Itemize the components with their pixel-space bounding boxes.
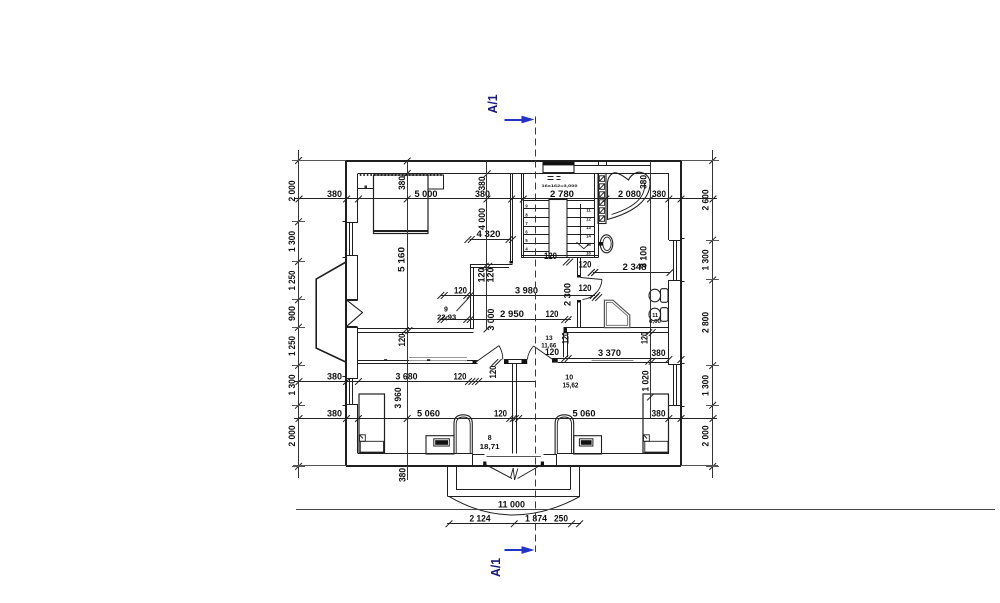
svg-text:120: 120	[640, 332, 651, 344]
desk room10	[574, 436, 602, 454]
nightstand room9	[428, 175, 444, 189]
splayed window reveals	[346, 301, 362, 327]
entrance door jamb pilasters	[472, 454, 485, 456]
stair treads	[524, 200, 549, 202]
extension line bottom left	[293, 465, 346, 467]
svg-text:2 950: 2 950	[500, 309, 524, 320]
svg-text:13: 13	[586, 225, 591, 230]
wall H1 room9 bottom	[357, 328, 473, 330]
entrance door jamb caps	[483, 462, 486, 466]
window left lower glazing	[349, 378, 351, 404]
shower tray	[604, 300, 629, 327]
svg-text:22,93: 22,93	[437, 314, 456, 321]
svg-text:1 300: 1 300	[701, 375, 711, 396]
svg-text:120: 120	[488, 366, 499, 379]
svg-text:380: 380	[397, 176, 408, 190]
svg-text:11: 11	[586, 208, 591, 213]
svg-text:5 060: 5 060	[417, 409, 440, 420]
wall H3c corridor bottom right	[552, 358, 669, 360]
svg-text:1 250: 1 250	[287, 336, 297, 356]
window left upper glazing	[349, 223, 351, 256]
dim line 5060	[294, 418, 717, 420]
dim ticks y418	[296, 415, 303, 422]
svg-text:1 250: 1 250	[287, 271, 297, 291]
interior dim line x650	[650, 161, 652, 419]
bathtub corner heart-shaped	[607, 172, 650, 219]
door bathroom leaf and swing	[581, 278, 603, 280]
bed room9	[374, 175, 429, 234]
svg-text:2 124: 2 124	[470, 514, 491, 524]
window right lower sills	[669, 364, 681, 366]
svg-text:2 300: 2 300	[563, 283, 574, 306]
svg-text:120: 120	[494, 409, 507, 420]
flue ledge line top wall	[574, 165, 651, 167]
dim line 3680	[294, 381, 536, 383]
extension line top right	[681, 160, 718, 162]
svg-text:120: 120	[579, 283, 592, 293]
svg-text:3 980: 3 980	[515, 286, 538, 297]
dim line 3980	[441, 295, 595, 297]
dim ticks y199	[296, 196, 303, 203]
stove room8	[454, 415, 472, 454]
svg-text:16: 16	[586, 251, 591, 256]
wall V3 corridor right	[563, 333, 565, 358]
bathroom left wall upper	[577, 258, 579, 278]
svg-text:3 680: 3 680	[396, 372, 418, 383]
wall H3a corridor bottom left	[358, 360, 478, 362]
svg-text:2 000: 2 000	[287, 426, 297, 447]
right dimension chain line	[712, 150, 714, 478]
svg-text:5 160: 5 160	[397, 247, 408, 272]
section arrow bottom	[505, 549, 530, 551]
interior dim line x486	[486, 161, 488, 330]
window right lower glazing	[673, 365, 675, 405]
dim line y199	[294, 198, 717, 200]
vent block with flue squares	[598, 174, 606, 224]
svg-text:120: 120	[544, 251, 557, 261]
porch step arc	[449, 496, 580, 515]
svg-text:250: 250	[554, 514, 568, 524]
svg-text:380: 380	[398, 468, 409, 482]
wall W1 vertical x509	[510, 174, 512, 264]
svg-text:14: 14	[586, 234, 591, 239]
interior dim line x407	[407, 161, 409, 480]
svg-text:6,00: 6,00	[649, 319, 661, 325]
svg-text:380: 380	[652, 348, 666, 359]
svg-text:120: 120	[454, 286, 467, 297]
svg-text:120: 120	[486, 268, 497, 283]
svg-text:380: 380	[327, 372, 342, 383]
washbasin	[600, 235, 613, 253]
dim line 2348	[593, 272, 670, 274]
wall jog y264	[470, 264, 513, 266]
dim line 3370 ticks	[561, 355, 568, 362]
svg-text:16x162=3,000: 16x162=3,000	[542, 183, 579, 188]
wall right exterior outer face	[680, 161, 682, 466]
door room8 leaf and swing	[477, 346, 499, 362]
svg-text:5 060: 5 060	[573, 409, 596, 420]
svg-text:10: 10	[565, 374, 573, 381]
svg-text:8: 8	[488, 435, 492, 442]
svg-text:2 600: 2 600	[701, 190, 711, 211]
window left upper sills	[346, 222, 358, 224]
svg-text:4 000: 4 000	[477, 208, 488, 230]
svg-text:380: 380	[652, 409, 666, 420]
entrance door lintel line	[487, 456, 541, 458]
svg-text:12: 12	[586, 216, 591, 221]
svg-text:9: 9	[444, 307, 448, 314]
stair central well	[549, 200, 567, 258]
wall left exterior outer face	[345, 161, 347, 466]
svg-text:120: 120	[546, 309, 559, 320]
entrance double door leaves	[486, 465, 512, 479]
svg-text:2 080: 2 080	[618, 189, 641, 200]
shelf room9 left	[358, 188, 374, 190]
svg-text:1 020: 1 020	[641, 371, 652, 392]
bathroom left wall lower	[577, 300, 579, 328]
svg-text:120: 120	[454, 372, 467, 383]
ground line y510	[296, 509, 995, 511]
wall V4 between rooms 8 and 10	[512, 364, 514, 454]
wall H2 bath bottom	[564, 327, 670, 329]
window right upper glazing	[673, 240, 675, 280]
bidet	[661, 308, 669, 322]
wall bottom exterior outer face	[346, 465, 681, 467]
bay terrace outline	[316, 262, 346, 362]
wall top exterior inner face	[358, 173, 669, 175]
dim line bottom porch	[447, 523, 581, 525]
section arrow top	[505, 119, 530, 121]
desk room8	[426, 436, 454, 454]
extension line top left	[293, 160, 346, 162]
svg-text:3 370: 3 370	[598, 348, 621, 359]
svg-text:13: 13	[545, 335, 553, 342]
svg-text:А/1: А/1	[485, 95, 500, 114]
stair direction arrow	[576, 242, 590, 249]
svg-text:2 000: 2 000	[287, 181, 297, 202]
svg-text:120: 120	[579, 260, 592, 270]
svg-text:2 000: 2 000	[701, 426, 711, 447]
porch left wall	[447, 466, 449, 497]
svg-text:380: 380	[327, 409, 342, 420]
window right upper sills	[669, 240, 681, 242]
svg-text:380: 380	[327, 189, 342, 200]
svg-text:380: 380	[639, 175, 650, 189]
stair enclosure left wall	[521, 174, 523, 258]
bed room10	[643, 394, 669, 453]
toilet	[661, 289, 669, 303]
wardrobe dotted strip room9	[360, 174, 442, 176]
svg-text:5 000: 5 000	[415, 189, 438, 200]
window left lower sills	[346, 378, 358, 380]
splayed window opening jamb caps	[346, 299, 357, 301]
svg-text:380: 380	[652, 189, 666, 200]
extension line bottom right	[681, 465, 718, 467]
porch bottom wall	[448, 496, 580, 498]
dim line 4320	[470, 239, 511, 241]
section dashed line	[535, 117, 537, 553]
svg-text:380: 380	[477, 177, 488, 191]
stove room10	[555, 415, 574, 454]
left dimension chain line	[298, 150, 300, 478]
svg-text:2 800: 2 800	[701, 312, 711, 333]
bed room8	[359, 394, 385, 453]
svg-text:3 100: 3 100	[639, 246, 650, 268]
wall top exterior outer face	[346, 160, 681, 162]
stair enclosure bottom wall	[522, 255, 599, 257]
svg-text:11,66: 11,66	[541, 342, 556, 349]
svg-text:А/1: А/1	[488, 558, 503, 577]
stair landing marks	[548, 176, 554, 178]
door room10 leaf and swing	[534, 346, 554, 360]
svg-text:15,62: 15,62	[563, 382, 579, 389]
svg-text:18,71: 18,71	[480, 444, 500, 451]
dim ticks top wall x407	[404, 158, 411, 165]
wall right exterior inner face	[668, 174, 670, 241]
svg-text:1 300: 1 300	[287, 231, 297, 252]
wall W2 vertical x470	[470, 264, 472, 329]
wall left exterior inner face	[357, 174, 359, 223]
svg-text:3 000: 3 000	[486, 309, 497, 331]
dim line 2950	[441, 319, 571, 321]
svg-text:3 960: 3 960	[393, 388, 404, 409]
porch right wall	[579, 466, 581, 497]
svg-text:120: 120	[397, 334, 408, 347]
svg-text:900: 900	[287, 306, 297, 321]
svg-text:2 780: 2 780	[550, 189, 574, 200]
svg-text:120: 120	[561, 332, 572, 344]
svg-text:1 300: 1 300	[287, 375, 297, 396]
stair enclosure right wall	[594, 174, 596, 258]
svg-text:11 000: 11 000	[498, 499, 525, 510]
wall H3b corridor bottom T	[504, 359, 527, 361]
dim tick top wall x487	[484, 170, 491, 177]
svg-text:1 300: 1 300	[701, 250, 711, 271]
chimney block top wall	[543, 162, 574, 173]
wall bottom exterior inner face	[358, 453, 472, 455]
